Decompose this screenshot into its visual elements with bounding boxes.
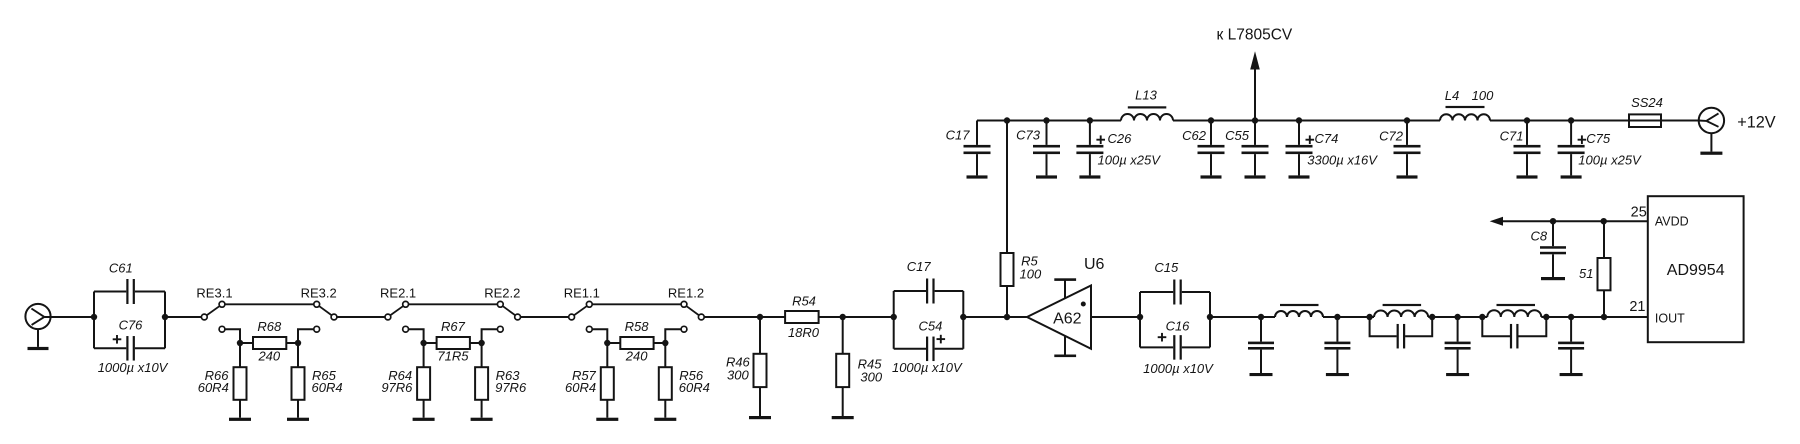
svg-text:71R5: 71R5 — [437, 348, 469, 363]
svg-text:18R0: 18R0 — [788, 325, 820, 340]
wire amplifier to C15/C16 — [1091, 316, 1140, 318]
svg-text:R58: R58 — [625, 319, 650, 334]
svg-text:C61: C61 — [109, 260, 133, 275]
capacitor tank 2 — [1482, 317, 1510, 336]
svg-text:25: 25 — [1631, 205, 1647, 221]
resistor R56 — [659, 367, 672, 400]
svg-text:51: 51 — [1579, 266, 1593, 281]
node AVDD / C8 — [1550, 218, 1556, 224]
resistor R45 — [842, 317, 844, 354]
node tank 1 right — [1429, 314, 1435, 320]
capacitor filter shunt 4 — [1558, 314, 1584, 376]
capacitor C74 — [1286, 117, 1315, 178]
wire L1 to tank 1 — [1323, 316, 1374, 318]
node attenuator right — [295, 340, 301, 346]
ground (R63) — [471, 418, 493, 421]
op-amp U6 / A62 — [1027, 278, 1091, 357]
capacitor C73 — [1033, 117, 1060, 178]
svg-text:1000µ x10V: 1000µ x10V — [98, 360, 169, 375]
svg-text:1000µ x10V: 1000µ x10V — [892, 360, 963, 375]
node AVDD / 51 — [1601, 218, 1607, 224]
ground (C8) — [1541, 277, 1565, 280]
wire RE2.2 to RE1.1 — [521, 316, 569, 318]
svg-text:C73: C73 — [1016, 127, 1041, 142]
svg-text:C55: C55 — [1225, 128, 1250, 143]
svg-text:C74: C74 — [1315, 131, 1339, 146]
capacitor filter shunt 2 — [1324, 314, 1350, 376]
wire attenuator output stub — [665, 329, 681, 367]
svg-text:100: 100 — [1472, 88, 1494, 103]
relay switch RE2.1 — [385, 301, 409, 332]
wire input to C61/C76 — [44, 316, 94, 318]
relay switch RE2.2 — [497, 301, 520, 332]
wire C16 to output filter — [1210, 316, 1275, 318]
svg-text:SS24: SS24 — [1631, 95, 1663, 110]
wire C54 to amplifier — [963, 316, 1027, 318]
node attenuator left — [420, 340, 426, 346]
capacitor C62 — [1198, 117, 1225, 178]
resistor R46 — [759, 317, 761, 354]
capacitor C55 — [1242, 117, 1269, 178]
node tank 2 right — [1543, 314, 1549, 320]
ground (R57) — [596, 418, 618, 421]
capacitor C61 — [93, 292, 95, 349]
svg-text:RE1.2: RE1.2 — [668, 285, 704, 300]
relay switch RE1.1 — [569, 301, 593, 332]
svg-text:L13: L13 — [1135, 88, 1157, 103]
capacitor filter shunt 1 — [1248, 314, 1274, 376]
wire attenuator input stub — [409, 329, 424, 367]
capacitor C26 — [1076, 117, 1105, 178]
svg-text:300: 300 — [727, 367, 749, 382]
wire bypass RE3.1-RE3.2 — [225, 303, 314, 305]
svg-text:3300µ x16V: 3300µ x16V — [1307, 152, 1378, 167]
node C15/C16 left — [1137, 314, 1143, 320]
svg-text:C76: C76 — [119, 317, 144, 332]
svg-text:240: 240 — [257, 348, 280, 363]
svg-text:C17: C17 — [907, 259, 932, 274]
svg-text:21: 21 — [1629, 299, 1645, 315]
capacitor C17 (bottom) — [893, 291, 895, 349]
svg-text:AD9954: AD9954 — [1667, 262, 1725, 279]
wire rail drop to R5 — [1004, 117, 1010, 123]
relay switch RE1.2 — [681, 301, 704, 332]
wire attenuator output stub — [298, 329, 314, 367]
relay switch RE3.1 — [201, 301, 225, 332]
wire attenuator input stub — [592, 329, 607, 367]
svg-text:C26: C26 — [1108, 131, 1133, 146]
resistor 51 — [1603, 221, 1605, 258]
svg-text:U6: U6 — [1084, 256, 1105, 273]
input connector — [25, 304, 50, 329]
fuse SS24 — [1629, 114, 1661, 127]
svg-text:AVDD: AVDD — [1655, 215, 1689, 229]
node R5 bottom — [1004, 314, 1010, 320]
node C17/C54 left — [891, 314, 897, 320]
svg-text:C17: C17 — [946, 127, 971, 142]
svg-text:A62: A62 — [1053, 310, 1082, 327]
svg-text:100µ x25V: 100µ x25V — [1578, 152, 1642, 167]
wire attenuator output stub — [482, 329, 498, 367]
svg-text:+12V: +12V — [1737, 113, 1776, 131]
svg-text:C15: C15 — [1154, 260, 1179, 275]
wire bypass RE1.1-RE1.2 — [592, 303, 681, 305]
svg-text:RE3.1: RE3.1 — [196, 285, 232, 300]
node R46 — [757, 314, 763, 320]
wire bypass RE2.1-RE2.2 — [409, 303, 498, 305]
svg-text:R67: R67 — [441, 319, 466, 334]
node tank 2 left — [1479, 314, 1485, 320]
node C76 output — [162, 314, 168, 320]
ground (R45) — [832, 416, 854, 419]
svg-text:RE2.2: RE2.2 — [484, 285, 520, 300]
wire RE1.2 to R54 — [704, 316, 785, 318]
svg-text:97R6: 97R6 — [381, 380, 413, 395]
capacitor C54 — [962, 291, 964, 349]
resistor R64 — [417, 367, 430, 400]
capacitor C15 — [1139, 292, 1141, 347]
resistor R66 — [234, 367, 247, 400]
resistor R65 — [292, 367, 305, 400]
svg-text:97R6: 97R6 — [495, 380, 527, 395]
IC U-DDS AD9954 — [1648, 196, 1744, 342]
inductor filter L1 — [1275, 311, 1323, 317]
svg-text:R54: R54 — [792, 294, 816, 309]
capacitor C75 — [1558, 117, 1587, 178]
svg-text:C62: C62 — [1182, 128, 1207, 143]
wire AVDD — [1503, 220, 1649, 222]
wire tank 1 to shunt 3 — [1432, 316, 1482, 318]
wire fuse to +12V source — [1661, 120, 1699, 122]
ground (R64) — [413, 418, 435, 421]
ground (R66) — [229, 418, 251, 421]
ground (R65) — [287, 418, 309, 421]
svg-text:60R4: 60R4 — [198, 380, 229, 395]
resistor R68 — [240, 342, 253, 344]
svg-text:1000µ x10V: 1000µ x10V — [1143, 361, 1214, 376]
capacitor C16 — [1209, 292, 1211, 347]
ground (+12V source) — [1710, 133, 1712, 151]
wire +12V rail segment 3 — [1490, 120, 1629, 122]
resistor R5 — [1001, 253, 1014, 286]
resistor R57 — [601, 367, 614, 400]
svg-text:C8: C8 — [1530, 228, 1547, 243]
svg-text:C71: C71 — [1500, 129, 1524, 144]
resistor R67 — [424, 342, 437, 344]
node attenuator left — [237, 340, 243, 346]
wire tank 2 to IOUT — [1546, 316, 1648, 318]
capacitor C76 — [164, 292, 166, 349]
node input junction — [91, 314, 97, 320]
node attenuator left — [604, 340, 610, 346]
wire attenuator input stub — [225, 329, 240, 367]
svg-text:C54: C54 — [918, 318, 942, 333]
svg-text:RE3.2: RE3.2 — [301, 285, 337, 300]
svg-text:R68: R68 — [257, 319, 282, 334]
svg-text:C16: C16 — [1166, 318, 1191, 333]
capacitor filter shunt 3 — [1445, 314, 1471, 376]
node attenuator right — [478, 340, 484, 346]
svg-text:L4: L4 — [1445, 88, 1459, 103]
wire R54 to C17/C54 — [819, 316, 894, 318]
svg-text:к L7805CV: к L7805CV — [1217, 27, 1293, 44]
resistor R58 — [607, 342, 620, 344]
wire to RE3.1 — [165, 316, 201, 318]
capacitor tank 1 — [1370, 317, 1397, 336]
arrow AVDD supply — [1490, 217, 1503, 226]
capacitor C8 — [1552, 221, 1554, 246]
svg-text:60R4: 60R4 — [312, 380, 343, 395]
wire RE3.2 to RE2.1 — [337, 316, 385, 318]
svg-text:RE1.1: RE1.1 — [564, 285, 600, 300]
svg-text:IOUT: IOUT — [1655, 311, 1685, 325]
svg-text:100: 100 — [1020, 267, 1042, 282]
ground (R56) — [654, 418, 676, 421]
node R45 — [840, 314, 846, 320]
svg-text:RE2.1: RE2.1 — [380, 285, 416, 300]
node C17/C54 right — [960, 314, 966, 320]
inductor L4 — [1440, 114, 1490, 120]
resistor R54 — [785, 311, 819, 323]
ground (input connector) — [37, 329, 39, 347]
ground (R46) — [749, 416, 771, 419]
wire +12V rail segment 1 — [977, 120, 1121, 122]
inductor tank 2 — [1487, 310, 1541, 317]
svg-text:C72: C72 — [1379, 129, 1404, 144]
wire +12V rail segment 2 — [1173, 120, 1440, 122]
node attenuator right — [662, 340, 668, 346]
node C15/C16 right — [1207, 314, 1213, 320]
inductor L13 — [1121, 114, 1173, 121]
node tank 1 left — [1366, 314, 1372, 320]
svg-text:300: 300 — [860, 369, 882, 384]
capacitor C71 — [1514, 117, 1541, 178]
svg-text:240: 240 — [625, 348, 648, 363]
svg-text:60R4: 60R4 — [679, 380, 710, 395]
arrow to L7805CV — [1254, 69, 1256, 121]
inductor tank 1 — [1374, 310, 1428, 317]
relay switch RE3.2 — [314, 301, 337, 332]
svg-text:C75: C75 — [1586, 131, 1611, 146]
capacitor C72 — [1394, 117, 1421, 178]
capacitor C17 (rail) — [976, 121, 978, 145]
svg-text:100µ x25V: 100µ x25V — [1098, 152, 1162, 167]
node 51-ohm junction — [1601, 314, 1607, 320]
svg-text:60R4: 60R4 — [565, 380, 596, 395]
resistor R63 — [475, 367, 488, 400]
+12V source connector — [1699, 108, 1724, 133]
